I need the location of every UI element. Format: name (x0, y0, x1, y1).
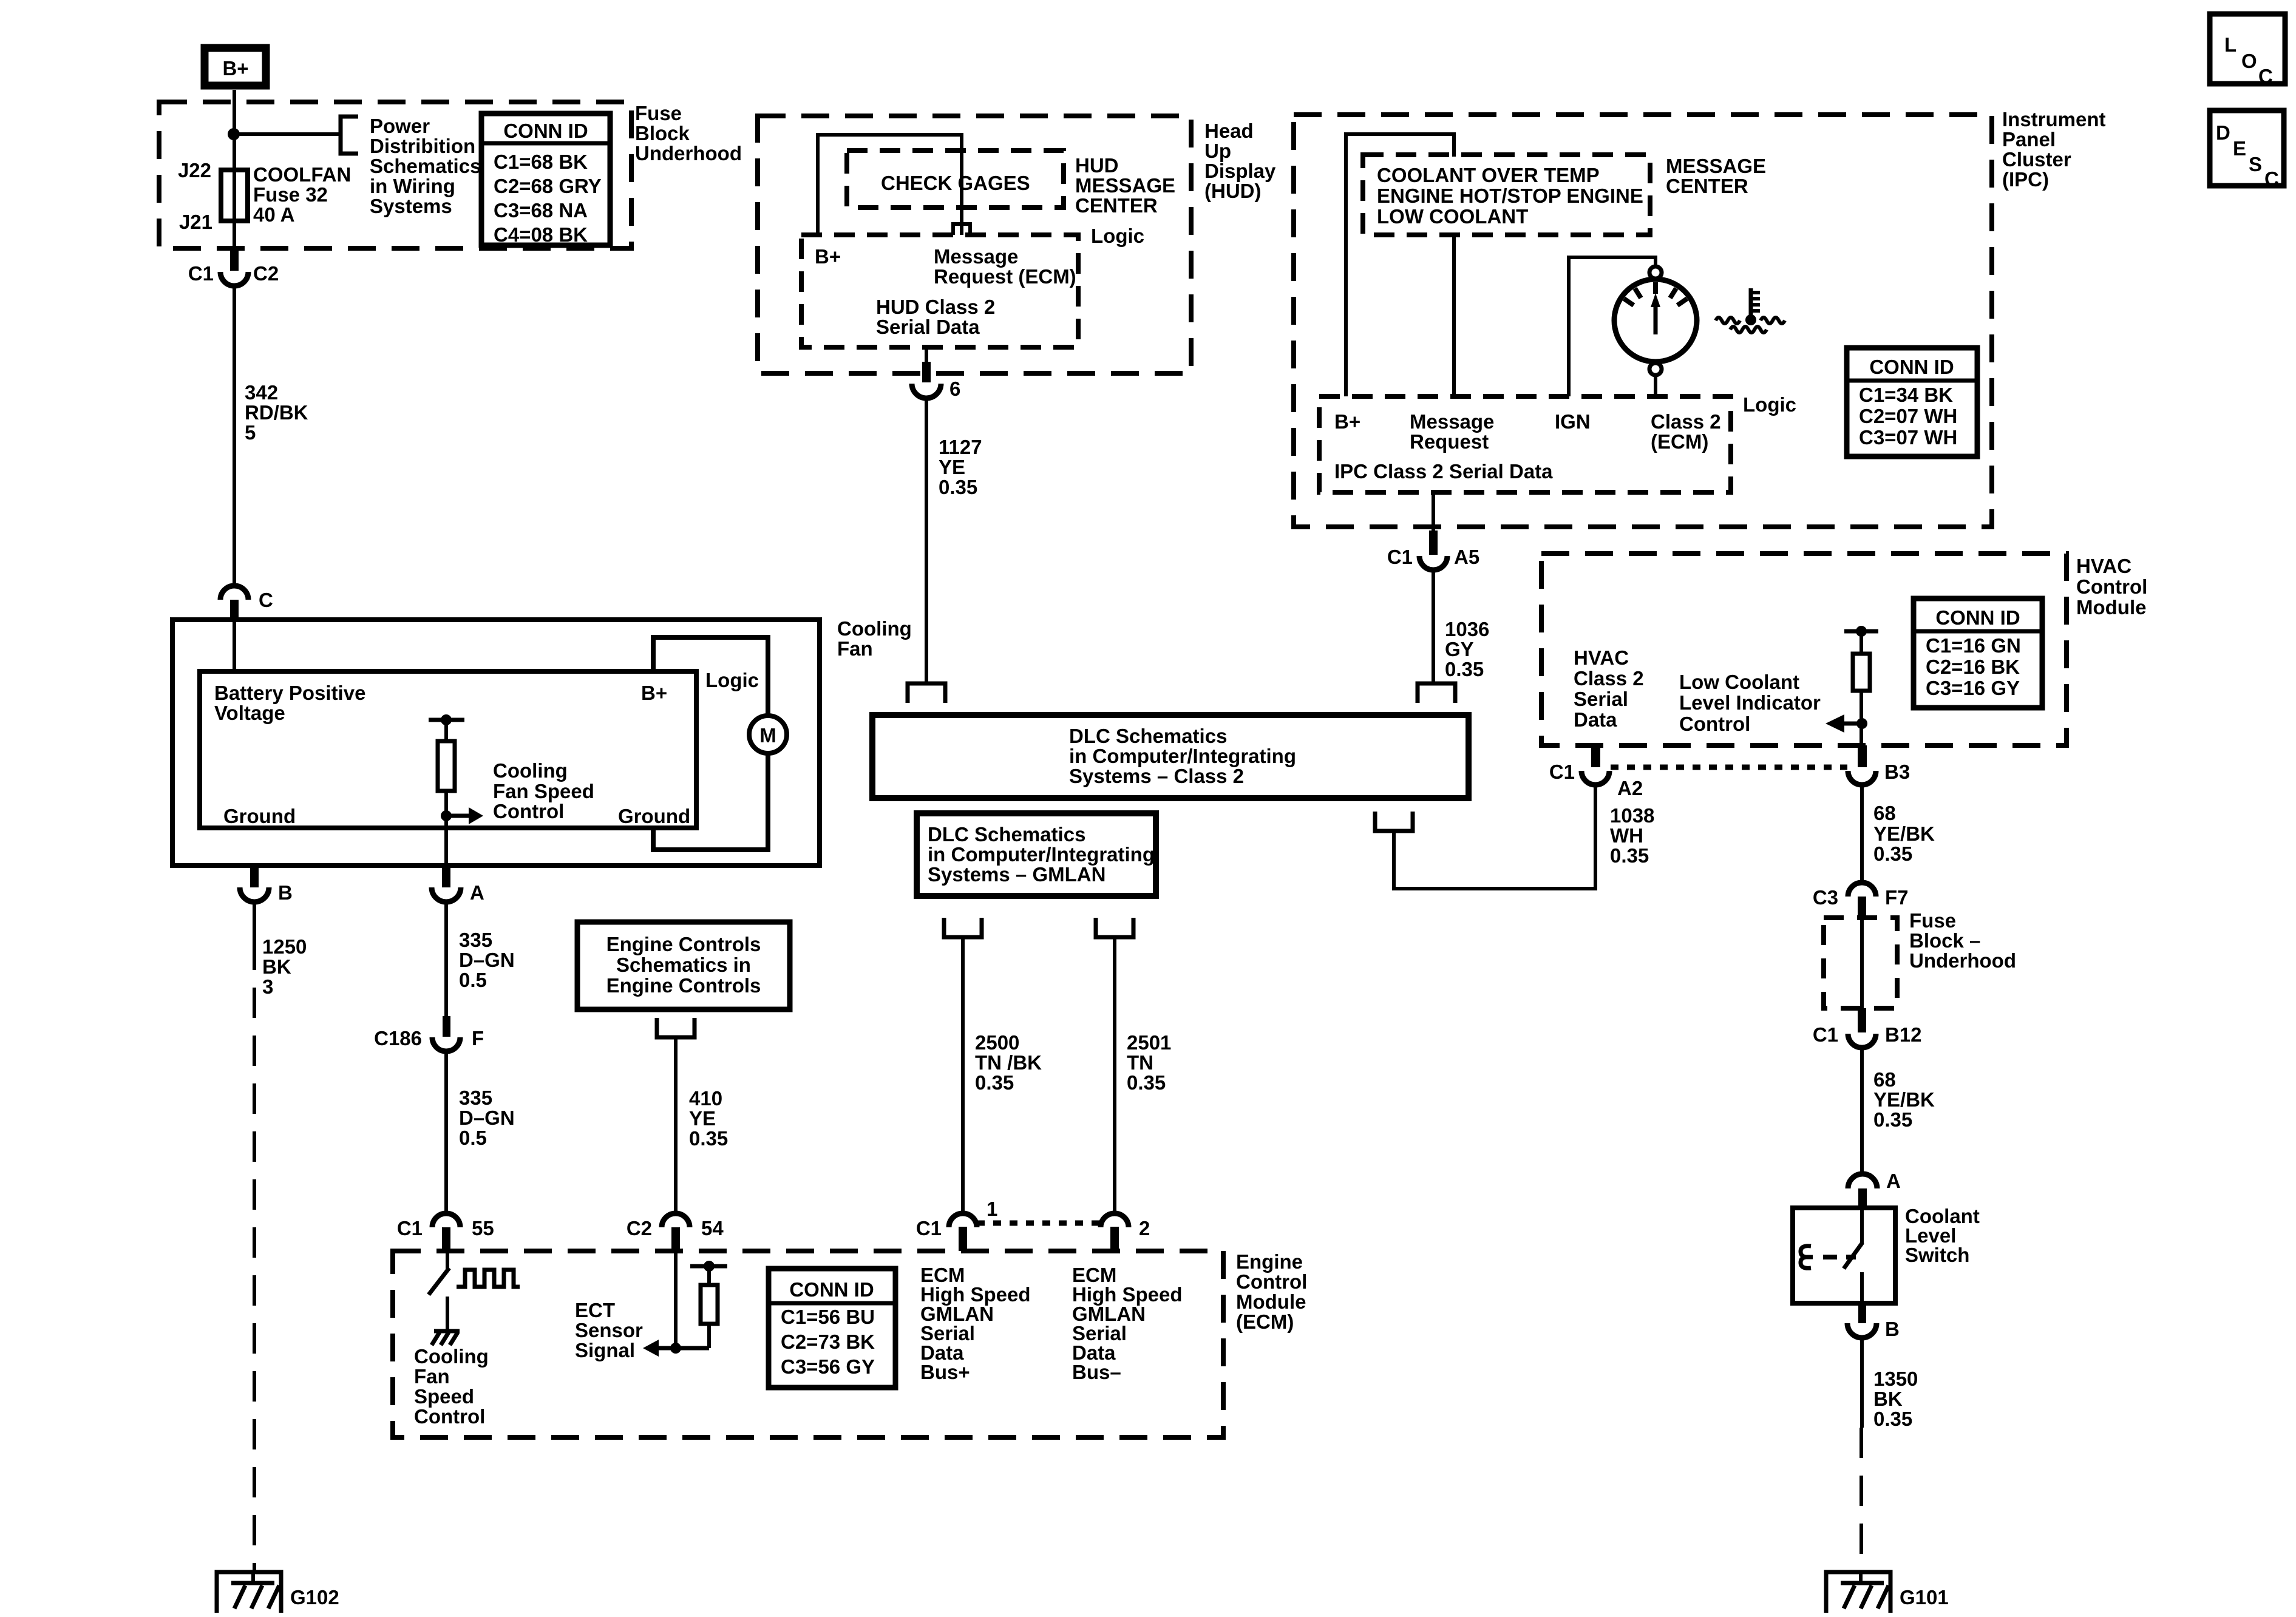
ground G102 (217, 1572, 339, 1613)
label COOLFAN Fuse 32 40 A (253, 163, 351, 226)
connector C2/54 (662, 1213, 690, 1227)
label HVAC Class 2 Serial Data (1574, 646, 1644, 731)
label ECM GMLAN Bus- (1072, 1264, 1183, 1383)
svg-text:MESSAGE: MESSAGE (1075, 174, 1175, 197)
svg-text:Control: Control (1679, 713, 1750, 735)
svg-text:Systems – GMLAN: Systems – GMLAN (928, 863, 1106, 886)
connector C cooling fan (220, 586, 248, 600)
svg-text:Module: Module (2076, 596, 2146, 619)
svg-text:Head: Head (1204, 120, 1254, 142)
svg-text:WH: WH (1610, 824, 1643, 847)
svg-text:L: L (2224, 33, 2237, 56)
svg-text:Cooling: Cooling (414, 1345, 489, 1368)
arrow fan speed control (446, 807, 483, 824)
svg-text:C1: C1 (1549, 761, 1575, 783)
motor M (749, 716, 787, 753)
svg-text:Low Coolant: Low Coolant (1679, 671, 1799, 693)
svg-text:CONN ID: CONN ID (1869, 356, 1954, 378)
label Fuse Block Underhood right (1909, 909, 2016, 972)
svg-text:C3: C3 (1813, 886, 1838, 909)
label 1127 YE 0.35 (939, 436, 982, 498)
svg-text:CENTER: CENTER (1666, 175, 1748, 197)
wire 1250 BK dashed to G102 (253, 902, 256, 940)
wire notch HUD logic entry (953, 224, 970, 235)
svg-text:68: 68 (1873, 1068, 1896, 1091)
connector 6 stub (922, 347, 931, 382)
label 1350 BK 0.35 (1873, 1368, 1918, 1430)
svg-text:CONN ID: CONN ID (503, 120, 588, 142)
PWM waveform symbol (457, 1270, 520, 1287)
svg-text:O: O (2241, 50, 2257, 72)
svg-text:C2=68 GRY: C2=68 GRY (494, 175, 602, 197)
svg-text:Logic: Logic (1743, 393, 1796, 416)
label 410 YE 0.35 (689, 1087, 728, 1150)
svg-text:Cooling: Cooling (493, 759, 568, 782)
svg-text:F: F (472, 1027, 484, 1049)
svg-text:0.35: 0.35 (1873, 1108, 1912, 1131)
svg-text:1036: 1036 (1445, 618, 1489, 640)
connector A fan (432, 887, 461, 902)
label ECT Sensor Signal (575, 1299, 643, 1361)
connector C1/C2 (220, 272, 248, 286)
connector C186/F stub (443, 1016, 450, 1037)
svg-text:A2: A2 (1617, 777, 1643, 799)
svg-text:Message: Message (1410, 410, 1494, 433)
wire 1350 BK dashed to G101 (1861, 1338, 1862, 1572)
label Fuse Block Underhood (635, 102, 742, 164)
reference tab DLC class2 right (1418, 683, 1455, 703)
svg-text:Schematics in: Schematics in (616, 954, 751, 976)
cooling fan inner block (200, 671, 696, 828)
svg-text:Serial: Serial (1574, 688, 1628, 710)
svg-text:Power: Power (370, 115, 430, 137)
wire IPC B+ riser (1346, 134, 1454, 396)
svg-text:C3=07 WH: C3=07 WH (1859, 426, 1957, 449)
svg-text:YE: YE (939, 456, 965, 478)
svg-text:IPC Class 2 Serial Data: IPC Class 2 Serial Data (1334, 460, 1553, 483)
fuse F32 COOLFAN (221, 170, 248, 221)
svg-text:Underhood: Underhood (1909, 949, 2016, 972)
svg-text:A5: A5 (1454, 546, 1479, 568)
svg-text:Control: Control (1236, 1270, 1307, 1293)
indicator CHECK GAGES dashed box (847, 151, 1064, 208)
wire resistor to pin A (444, 791, 448, 866)
svg-text:Module: Module (1236, 1290, 1306, 1313)
svg-text:C2=16 BK: C2=16 BK (1926, 656, 2020, 678)
svg-text:COOLANT OVER TEMP: COOLANT OVER TEMP (1377, 164, 1600, 186)
fuse block underhood right dashed box (1824, 918, 1897, 1008)
label Power Distribution Schematics (370, 115, 481, 217)
svg-text:(IPC): (IPC) (2002, 168, 2049, 191)
svg-text:Cooling: Cooling (837, 617, 912, 640)
connector B3 (1848, 771, 1876, 785)
svg-text:HVAC: HVAC (2076, 555, 2131, 577)
label Battery Positive Voltage (214, 682, 365, 724)
svg-text:C2: C2 (253, 262, 279, 285)
svg-text:Panel: Panel (2002, 128, 2056, 151)
svg-text:B: B (278, 881, 293, 904)
svg-text:Systems – Class 2: Systems – Class 2 (1069, 765, 1244, 787)
svg-text:C3=68 NA: C3=68 NA (494, 199, 588, 222)
svg-text:C2=07 WH: C2=07 WH (1859, 405, 1957, 427)
reference tab GMLAN right (1096, 918, 1133, 937)
svg-text:B3: B3 (1884, 761, 1910, 783)
svg-text:Logic: Logic (1091, 225, 1144, 247)
label 1038 WH 0.35 (1610, 804, 1654, 867)
connector B stub (250, 866, 259, 887)
svg-text:0.5: 0.5 (459, 1127, 487, 1149)
svg-text:C4=08 BK: C4=08 BK (494, 223, 588, 246)
svg-text:Signal: Signal (575, 1339, 635, 1361)
svg-text:0.35: 0.35 (939, 476, 977, 498)
svg-text:C1: C1 (1813, 1023, 1838, 1046)
connector C3/F7 (1848, 883, 1876, 897)
reference tab Power Distribution (341, 117, 358, 154)
thermometer icon (1716, 288, 1785, 333)
svg-text:Schematics: Schematics (370, 155, 481, 177)
svg-text:Block –: Block – (1909, 929, 1980, 952)
svg-text:335: 335 (459, 929, 492, 951)
wire 1127 YE (925, 398, 928, 683)
svg-text:0.5: 0.5 (459, 969, 487, 991)
svg-text:HUD Class 2: HUD Class 2 (876, 296, 995, 318)
label 68 YE/BK 0.35 upper (1873, 802, 1935, 865)
wire logic loop (653, 637, 768, 716)
svg-text:Switch: Switch (1905, 1244, 1969, 1266)
svg-text:Engine Controls: Engine Controls (606, 933, 761, 955)
svg-text:Bus+: Bus+ (920, 1361, 970, 1383)
svg-text:C1=56 BU: C1=56 BU (781, 1306, 875, 1328)
svg-text:ENGINE HOT/STOP ENGINE: ENGINE HOT/STOP ENGINE (1377, 185, 1643, 207)
wire 342 RD/BK (233, 286, 236, 586)
svg-text:Distribition: Distribition (370, 135, 475, 157)
svg-text:1: 1 (987, 1198, 997, 1220)
svg-text:Ground: Ground (618, 805, 690, 827)
connector C1/A5 stub (1429, 492, 1438, 555)
label MESSAGE CENTER (1666, 155, 1766, 197)
svg-text:6: 6 (949, 378, 960, 400)
arrow ECT sensor signal (643, 1340, 676, 1357)
cooling fan module box (172, 620, 820, 866)
svg-text:Sensor: Sensor (575, 1319, 643, 1341)
reference tab GMLAN left (944, 918, 982, 937)
connector face dotted line HVAC (1611, 765, 1847, 770)
label 335 D-GN 0.5 lower (459, 1086, 515, 1149)
svg-text:DLC Schematics: DLC Schematics (928, 823, 1085, 846)
svg-text:F7: F7 (1885, 886, 1909, 909)
svg-text:HVAC: HVAC (1574, 646, 1629, 669)
svg-text:YE: YE (689, 1107, 716, 1130)
svg-text:0.35: 0.35 (1445, 658, 1484, 680)
svg-text:G101: G101 (1900, 1586, 1949, 1609)
svg-text:M: M (759, 724, 776, 747)
svg-text:Control: Control (414, 1405, 485, 1428)
svg-text:Control: Control (493, 800, 564, 822)
svg-text:LOW COOLANT: LOW COOLANT (1377, 205, 1528, 228)
connector B switch (1847, 1323, 1877, 1338)
label HVAC Control Module (2076, 555, 2147, 619)
svg-text:Battery Positive: Battery Positive (214, 682, 365, 704)
connector 2 (1101, 1213, 1129, 1227)
svg-text:335: 335 (459, 1086, 492, 1109)
svg-text:Class 2: Class 2 (1574, 667, 1644, 690)
svg-text:in Computer/Integrating: in Computer/Integrating (1069, 745, 1296, 767)
svg-text:IGN: IGN (1555, 410, 1591, 433)
wire B+ to junction (233, 90, 236, 175)
wire 68 YE/BK upper (1860, 785, 1864, 883)
svg-text:A: A (1886, 1170, 1901, 1192)
svg-text:TN: TN (1127, 1051, 1153, 1074)
label 335 D-GN 0.5 upper (459, 929, 515, 991)
svg-text:Serial Data: Serial Data (876, 316, 980, 338)
svg-text:Voltage: Voltage (214, 702, 285, 724)
svg-text:YE/BK: YE/BK (1873, 1088, 1935, 1111)
svg-text:(HUD): (HUD) (1204, 180, 1261, 202)
connector 6 (912, 384, 941, 398)
svg-text:B+: B+ (1334, 410, 1360, 433)
svg-text:Fan: Fan (414, 1365, 450, 1388)
label 2500 TN /BK 0.35 (975, 1031, 1042, 1094)
svg-text:Block: Block (635, 122, 690, 144)
connector C1/A5 (1419, 556, 1447, 570)
float sensor symbol (1801, 1246, 1856, 1269)
wire 335 D-GN lower (444, 1051, 448, 1213)
label 2501 TN 0.35 (1127, 1031, 1171, 1094)
svg-text:Up: Up (1204, 140, 1231, 162)
svg-text:BK: BK (262, 955, 291, 978)
indicator COOLANT OVER TEMP box (1363, 155, 1650, 235)
svg-text:Cluster: Cluster (2002, 148, 2071, 171)
svg-text:C3=16 GY: C3=16 GY (1926, 677, 2020, 699)
svg-text:CENTER: CENTER (1075, 194, 1158, 217)
reference tab engine controls (657, 1018, 695, 1037)
reference tab DLC class2 bottom (1375, 812, 1413, 831)
svg-text:2501: 2501 (1127, 1031, 1171, 1054)
wire gauge to class2 pin (1654, 375, 1657, 396)
svg-text:Engine: Engine (1236, 1250, 1303, 1273)
DLC schematics class 2 box (872, 715, 1469, 798)
svg-text:Fan: Fan (837, 637, 873, 660)
label 1036 GY 0.35 (1445, 618, 1489, 680)
svg-text:C186: C186 (374, 1027, 422, 1049)
wire junction to reference tab (234, 132, 339, 136)
svg-text:C: C (2258, 65, 2273, 87)
gauge temperature (1614, 266, 1697, 375)
svg-text:C1: C1 (916, 1217, 942, 1239)
node low coolant junction (1856, 718, 1867, 729)
svg-text:Message: Message (934, 245, 1018, 268)
HUD logic dashed box (801, 235, 1078, 347)
coolant level switch box (1793, 1208, 1895, 1303)
svg-text:DLC Schematics: DLC Schematics (1069, 725, 1227, 747)
svg-text:BK: BK (1873, 1388, 1903, 1410)
svg-text:Fan Speed: Fan Speed (493, 780, 594, 802)
svg-text:B12: B12 (1885, 1023, 1922, 1046)
box DESC (2210, 110, 2284, 190)
DLC schematics GMLAN box (917, 813, 1156, 896)
svg-text:40 A: 40 A (253, 203, 294, 226)
wire 335 D-GN upper (444, 902, 448, 1017)
wire 1036 GY (1432, 570, 1435, 683)
svg-text:B+: B+ (641, 682, 667, 704)
svg-text:3: 3 (262, 975, 273, 998)
svg-text:Display: Display (1204, 160, 1276, 182)
svg-text:C1: C1 (397, 1217, 423, 1239)
svg-text:0.35: 0.35 (1873, 1408, 1912, 1430)
svg-text:E: E (2233, 137, 2246, 160)
svg-text:410: 410 (689, 1087, 722, 1110)
svg-text:Engine Controls: Engine Controls (606, 974, 761, 997)
wire 68 YE/BK lower (1860, 1048, 1864, 1173)
svg-text:C1=16 GN: C1=16 GN (1926, 634, 2021, 657)
svg-text:ECT: ECT (575, 1299, 615, 1321)
svg-text:A: A (470, 881, 484, 904)
HVAC control module dashed box (1541, 554, 2067, 745)
svg-text:0.35: 0.35 (975, 1071, 1014, 1094)
svg-text:(ECM): (ECM) (1236, 1310, 1294, 1333)
svg-text:Bus–: Bus– (1072, 1361, 1121, 1383)
svg-text:Request: Request (1410, 430, 1489, 453)
connector C186/F (432, 1037, 460, 1051)
node junction J (228, 128, 240, 140)
svg-text:Request (ECM): Request (ECM) (934, 265, 1076, 288)
wire 2501 TN (1113, 937, 1116, 1213)
svg-text:C2=73 BK: C2=73 BK (781, 1331, 875, 1353)
engine controls schematics box (577, 922, 790, 1009)
label 342 RD/BK 5 (245, 381, 308, 444)
label ECM GMLAN Bus+ (920, 1264, 1031, 1383)
svg-text:Instrument: Instrument (2002, 108, 2106, 131)
label Cooling Fan Speed Control (493, 759, 594, 822)
node fan speed junction (441, 810, 452, 821)
HUD module dashed box (758, 116, 1191, 373)
conn id table fuse block (481, 114, 610, 246)
IPC module dashed box (1294, 115, 1992, 527)
label Low Coolant Level Indicator Control (1679, 671, 1821, 735)
svg-text:TN /BK: TN /BK (975, 1051, 1042, 1074)
svg-text:342: 342 (245, 381, 278, 404)
svg-text:Speed: Speed (414, 1385, 474, 1408)
resistor low coolant rail (1844, 626, 1878, 745)
svg-text:MESSAGE: MESSAGE (1666, 155, 1766, 177)
svg-text:S: S (2249, 153, 2262, 175)
connector A stub (442, 866, 450, 887)
label Cooling Fan (837, 617, 912, 660)
svg-text:GY: GY (1445, 638, 1474, 660)
fuse block underhood dashed box (159, 102, 631, 248)
wire HUD B+ loop (818, 135, 962, 235)
svg-text:D–GN: D–GN (459, 1107, 515, 1129)
svg-text:YE/BK: YE/BK (1873, 822, 1935, 845)
label 1250 BK 3 (262, 935, 307, 998)
wire DLC to HVAC A2 (1394, 783, 1595, 889)
connector C1/A2 (1581, 771, 1609, 785)
wire fuse to connector C1/C2 (233, 220, 236, 250)
svg-text:Fuse 32: Fuse 32 (253, 183, 328, 206)
conn id table ECM (769, 1269, 895, 1388)
svg-text:0.35: 0.35 (1873, 842, 1912, 865)
svg-text:C: C (2264, 168, 2279, 190)
connector face dotted line ECM (977, 1221, 1101, 1226)
label HUD MESSAGE CENTER (1075, 154, 1175, 217)
conn id table HVAC (1914, 598, 2042, 708)
svg-text:D: D (2216, 121, 2230, 144)
connector C1/B12 stub (1858, 1008, 1866, 1032)
svg-text:Systems: Systems (370, 195, 452, 217)
connector B switch stub (1858, 1304, 1866, 1323)
label Instrument Panel Cluster (IPC) (2002, 108, 2106, 191)
svg-text:C: C (259, 589, 273, 611)
svg-text:CONN ID: CONN ID (789, 1278, 874, 1301)
connector B (240, 887, 269, 902)
svg-text:Class 2: Class 2 (1651, 410, 1721, 433)
conn id table IPC (1847, 348, 1977, 456)
svg-text:2500: 2500 (975, 1031, 1019, 1054)
svg-text:Data: Data (1574, 708, 1617, 731)
resistor ECT pull-up rail (676, 1261, 727, 1348)
label HUD Class 2 Serial Data (876, 296, 995, 338)
svg-text:B: B (1885, 1318, 1900, 1340)
label Class 2 (ECM) pin (1651, 410, 1721, 453)
switch fan control driver (429, 1251, 449, 1331)
svg-text:Ground: Ground (223, 805, 296, 827)
svg-text:1250: 1250 (262, 935, 307, 958)
svg-text:0.35: 0.35 (1610, 844, 1649, 867)
label Coolant Level Switch (1905, 1205, 1980, 1266)
connector C1/C2 stub (230, 248, 239, 271)
svg-text:Fuse: Fuse (635, 102, 682, 124)
svg-text:RD/BK: RD/BK (245, 401, 308, 424)
connector A switch (1848, 1174, 1877, 1188)
label Engine Control Module (ECM) (1236, 1250, 1307, 1333)
svg-text:0.35: 0.35 (689, 1127, 728, 1150)
svg-text:COOLFAN: COOLFAN (253, 163, 351, 186)
svg-text:54: 54 (701, 1217, 724, 1239)
svg-text:D–GN: D–GN (459, 949, 515, 971)
label Cooling Fan Speed Control ECM (414, 1345, 489, 1428)
svg-text:C2: C2 (627, 1217, 652, 1239)
label Message Request (ECM) (934, 245, 1076, 288)
connector C1/B12 (1848, 1034, 1876, 1048)
ground internal ECM (432, 1331, 460, 1345)
IPC logic dashed box (1319, 396, 1731, 492)
label Head Up Display (HUD) (1204, 120, 1276, 202)
svg-text:1350: 1350 (1873, 1368, 1918, 1390)
svg-text:C1: C1 (1387, 546, 1413, 568)
reference tab DLC class2 left (908, 683, 945, 703)
wire IGN loop (1569, 257, 1656, 396)
label 68 YE/BK 0.35 lower (1873, 1068, 1935, 1131)
arrow low coolant indicator (1826, 714, 1862, 733)
connector B3 stub (1858, 745, 1867, 767)
svg-text:0.35: 0.35 (1127, 1071, 1166, 1094)
wire C into cooling fan (233, 620, 236, 671)
engine control module dashed box (393, 1251, 1223, 1437)
box LOC (2210, 14, 2285, 87)
svg-text:in Computer/Integrating: in Computer/Integrating (928, 843, 1155, 866)
svg-text:1127: 1127 (939, 436, 982, 458)
wire 410 YE (674, 1037, 678, 1213)
svg-text:1038: 1038 (1610, 804, 1654, 827)
svg-text:B+: B+ (222, 57, 248, 80)
wire 2500 TN/BK (961, 937, 965, 1213)
svg-text:Control: Control (2076, 575, 2147, 598)
svg-text:Level Indicator: Level Indicator (1679, 691, 1821, 714)
svg-text:(ECM): (ECM) (1651, 430, 1708, 453)
svg-text:J21: J21 (179, 211, 212, 233)
svg-text:C1: C1 (188, 262, 214, 285)
svg-text:Logic: Logic (705, 669, 759, 691)
